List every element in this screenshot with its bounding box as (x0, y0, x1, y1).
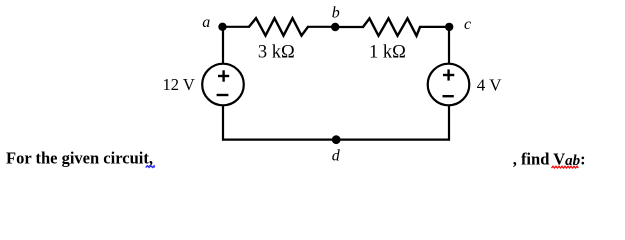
bottom wire rail (222, 139, 450, 141)
wire: node b to resistor R2 (335, 26, 364, 28)
wire: resistor R2 to node c (419, 26, 450, 28)
svg-text:b: b (332, 5, 340, 22)
V1 minus polarity mark (217, 94, 229, 96)
voltage source V2 circle (428, 64, 470, 106)
wire: resistor R1 to node b (307, 26, 336, 28)
svg-text:1 kΩ: 1 kΩ (369, 42, 406, 62)
red spelling squiggle under Vab (552, 166, 579, 168)
svg-text:d: d (332, 148, 341, 165)
svg-text:For the given circuit,: For the given circuit, (6, 148, 153, 167)
wire: bottom rail up to source V2 bottom (448, 105, 450, 141)
wire: source V2 top up to node c (448, 27, 450, 65)
V1 plus polarity mark (218, 70, 229, 81)
resistor R1 (3 kOhm) zigzag (249, 18, 308, 35)
node b junction dot (331, 23, 339, 31)
svg-text:a: a (202, 14, 210, 31)
voltage source V1 circle (202, 64, 244, 106)
resistor R2 (1 kOhm) zigzag (363, 18, 420, 35)
blue grammar squiggle under comma (146, 166, 155, 168)
node a junction dot (218, 23, 226, 31)
node c junction dot (445, 23, 453, 31)
wire: node a to resistor R1 (221, 26, 251, 28)
node d junction dot (332, 135, 341, 144)
wire: node a down to source V1 top (222, 27, 224, 65)
svg-text:c: c (464, 16, 471, 33)
V2 plus polarity mark (443, 69, 454, 80)
svg-text:3 kΩ: 3 kΩ (258, 42, 295, 62)
svg-text:4 V: 4 V (477, 75, 502, 94)
wire: source V1 bottom down to bottom rail (222, 105, 224, 141)
V2 minus polarity mark (443, 95, 454, 97)
svg-text:12 V: 12 V (163, 75, 195, 94)
